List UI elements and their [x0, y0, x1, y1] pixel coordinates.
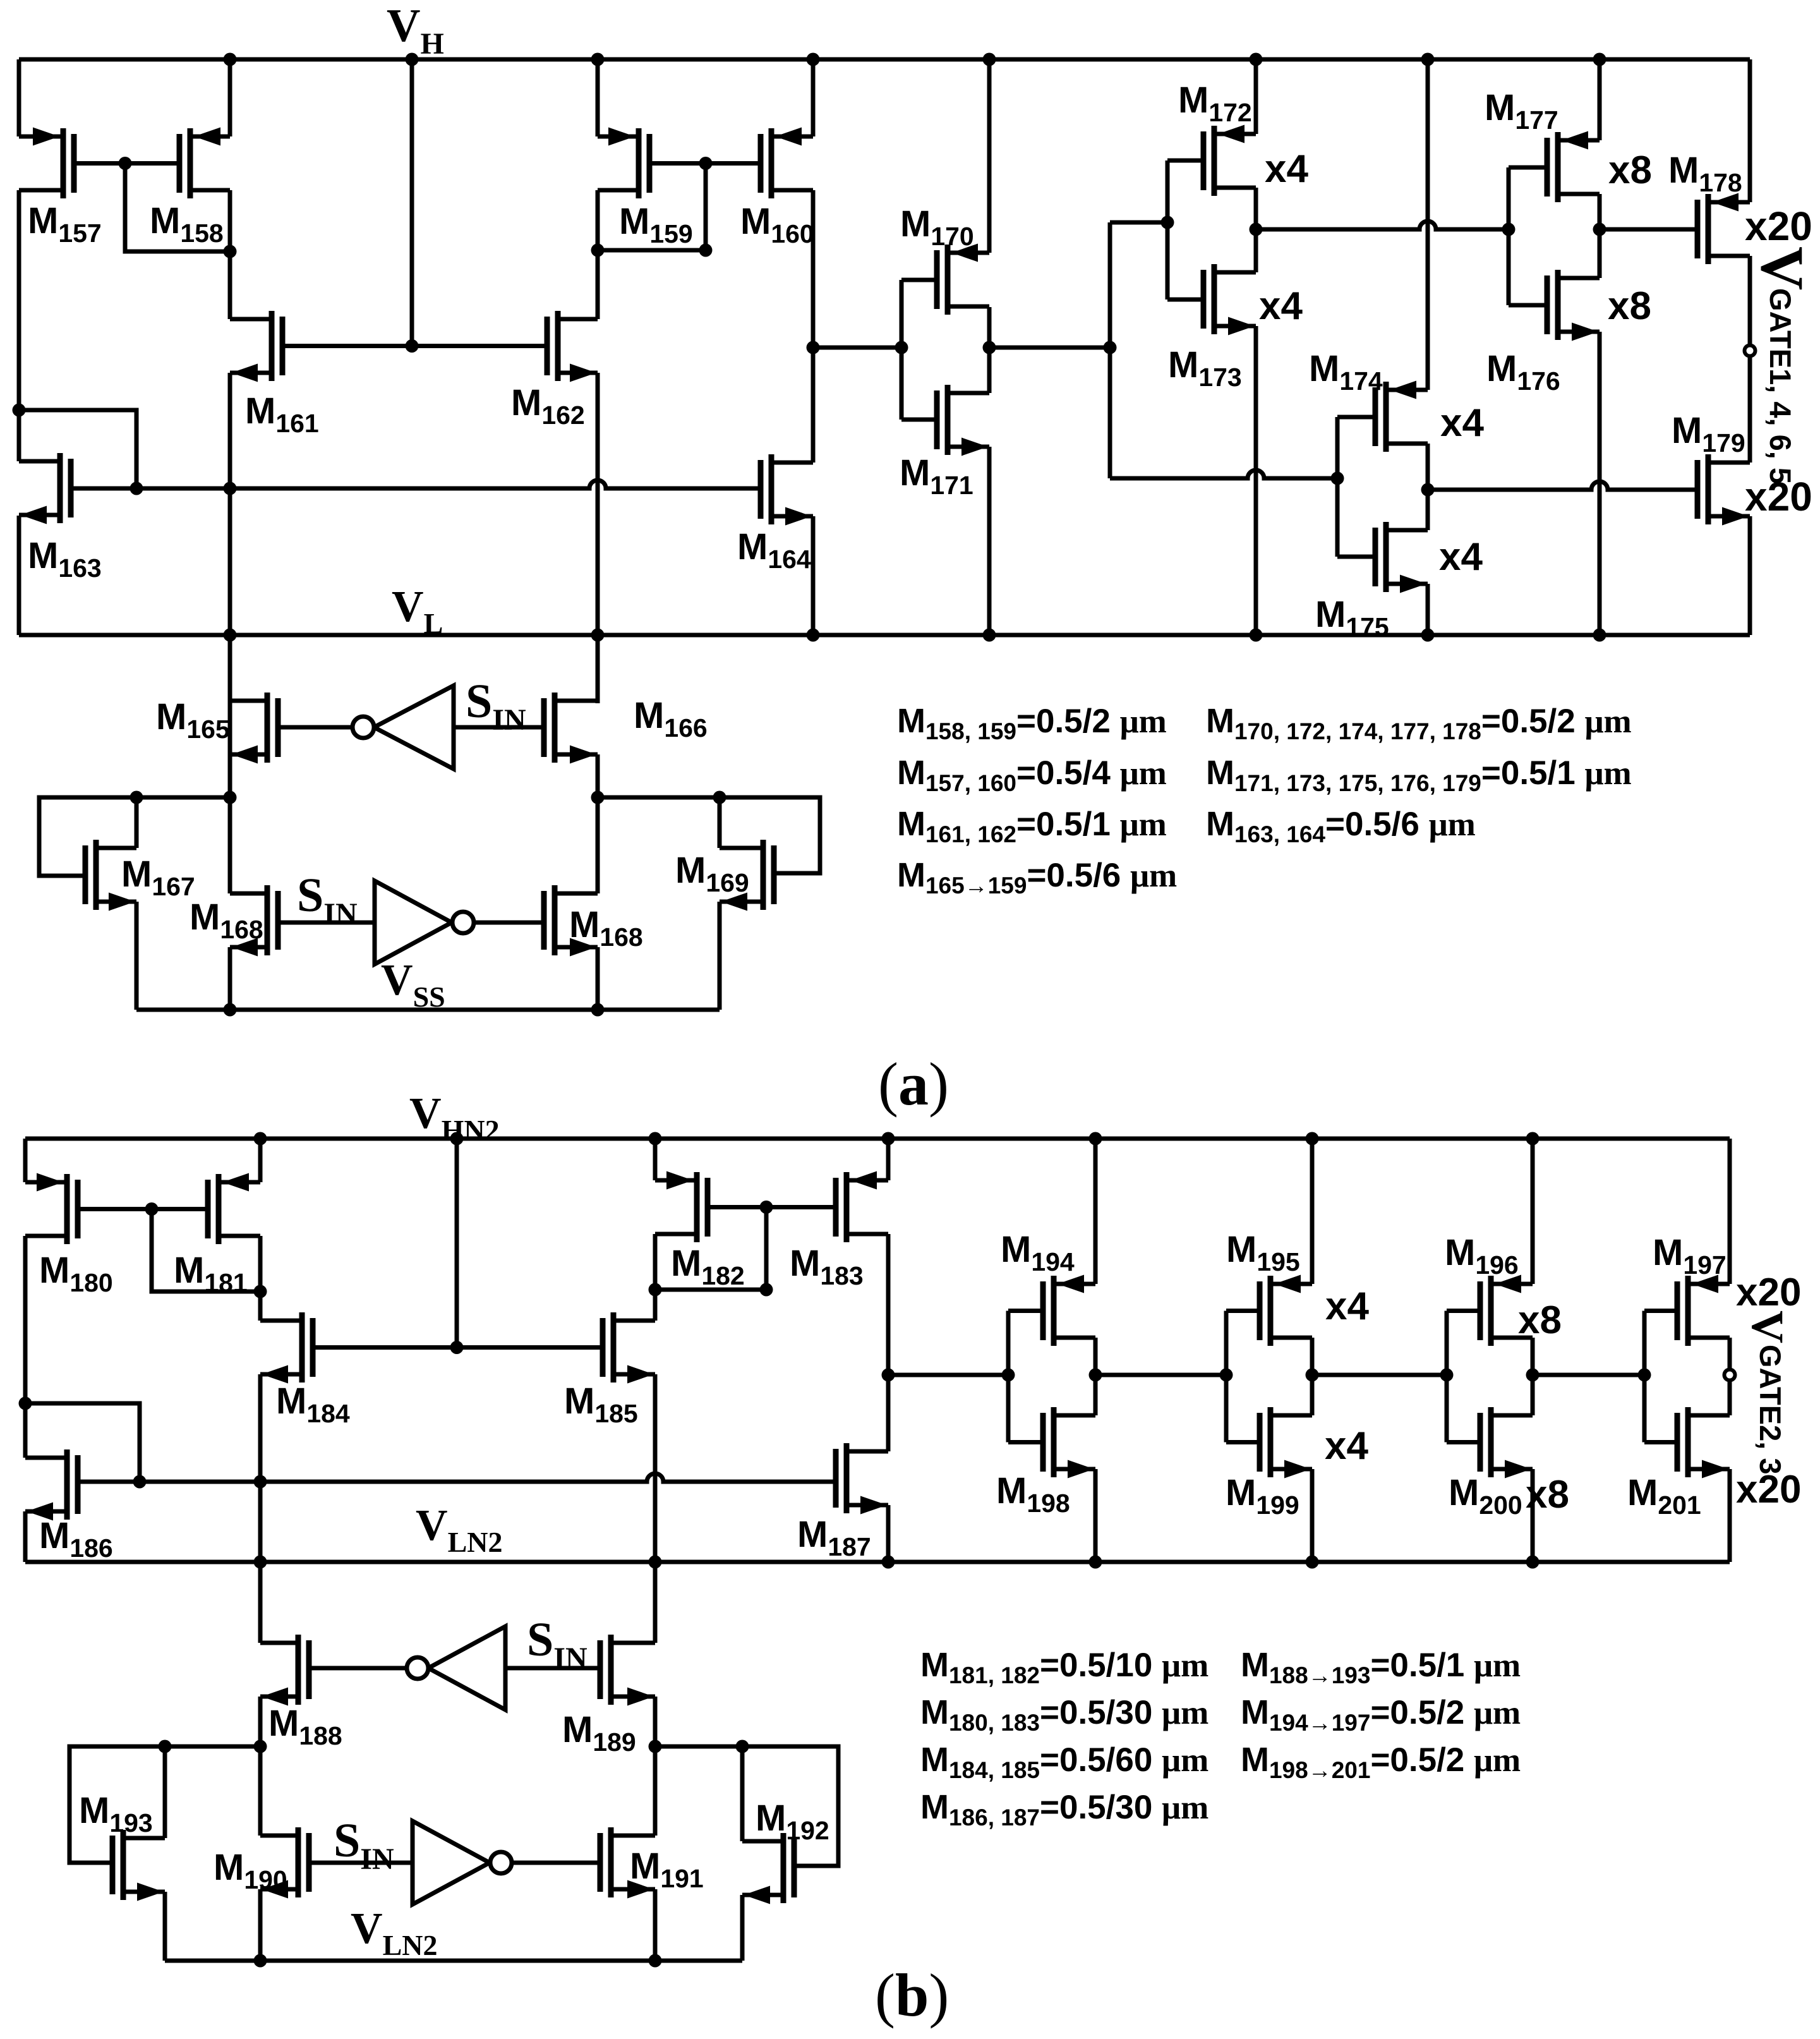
wire gate tie down: [655, 1207, 766, 1290]
node VL M173: [1250, 629, 1263, 642]
node gates of M180/M181: [145, 1202, 159, 1216]
wire gate-tie branch to M163 gate line: [19, 410, 136, 488]
wire gate tie down: [598, 164, 706, 251]
node M193 drain tie: [159, 1740, 172, 1753]
node VSS M168 left: [224, 1003, 237, 1017]
node gate line / VHN2 stem: [450, 1341, 464, 1354]
transistor M190: [260, 1827, 309, 1899]
port VGATE1,4,6,5 output: [1745, 346, 1756, 356]
node M157 drain / M163 gate tie: [13, 404, 26, 417]
wire M190 gate to inverter: [309, 1861, 413, 1865]
node VLN2 M199: [1306, 1556, 1319, 1569]
wire M201 source drop: [1728, 1469, 1732, 1562]
wire stage output riser: [1728, 1338, 1732, 1369]
wire M175 source drop: [1426, 584, 1430, 635]
node VLN2 M200: [1526, 1556, 1540, 1569]
svg-text:x4: x4: [1325, 1285, 1369, 1328]
wire M181 drain to M184 drain: [258, 1236, 263, 1321]
net VHN2 rail: [25, 1137, 1730, 1141]
wire M186/M187 long gate line (hop over M185 source): [78, 1473, 836, 1482]
node VL M164: [807, 629, 820, 642]
transistor M165: [230, 693, 278, 764]
wire node to M169 gate: [720, 797, 820, 873]
wire M190 drain riser: [258, 1746, 263, 1836]
wire M184/M185 gate line: [313, 1345, 603, 1350]
transistor M172: [1203, 125, 1256, 197]
svg-text:x4: x4: [1259, 284, 1303, 328]
wire M190 source drop: [258, 1889, 263, 1961]
net VSS rail: [136, 1008, 720, 1012]
transistor M185: [603, 1312, 655, 1384]
node M184 source / M186 gate line: [254, 1475, 267, 1489]
node VH M177: [1593, 53, 1606, 66]
transistor M200: [1480, 1407, 1533, 1479]
node VH stem: [406, 53, 419, 66]
wire M180-M181 gate link: [78, 1207, 208, 1211]
wire left node line: [136, 796, 230, 800]
transistor M196: [1480, 1275, 1533, 1346]
wire M187 source to VLN2: [886, 1505, 891, 1562]
wire M195/M199 gate riser: [1224, 1311, 1229, 1443]
transistor M180: [25, 1173, 78, 1245]
node b mirror right: [649, 1740, 662, 1753]
wire M161/M162 gate line: [282, 344, 547, 348]
transistor M182: [655, 1171, 708, 1243]
node M167 drain tie: [130, 791, 143, 804]
wire node to chain input: [888, 1373, 1008, 1377]
wire M159 source riser: [596, 59, 600, 136]
transistor M176: [1547, 270, 1600, 341]
wire inverter input from SIN: [505, 1666, 600, 1671]
transistor M179: [1697, 454, 1750, 526]
wire VH right corner to M178 source: [1748, 59, 1752, 202]
svg-text:x20: x20: [1736, 1271, 1801, 1314]
wire stage4 output riser: [1598, 194, 1602, 278]
node VLN2 M198: [1089, 1556, 1102, 1569]
wire M184 source down to VLN2 and M188: [258, 1374, 263, 1643]
wire M194 source riser: [1094, 1139, 1098, 1284]
transistor M168b: [544, 885, 598, 957]
inverter: [428, 1626, 505, 1710]
wire output line: [1533, 1373, 1644, 1377]
transistor M191: [600, 1827, 655, 1899]
transistor M188: [260, 1635, 309, 1706]
wire M167 source drop to VSS rail: [135, 902, 139, 1010]
wire M198 gate lead: [1008, 1440, 1043, 1444]
wire M160 drain down to M164: [811, 190, 816, 463]
transistor M189: [600, 1635, 655, 1706]
node M169 drain tie: [713, 791, 726, 804]
wire M194/M198 gate riser: [1006, 1311, 1011, 1443]
node VLN2b M190: [254, 1954, 267, 1968]
node VL M171: [983, 629, 996, 642]
wire M197 source riser: [1728, 1139, 1732, 1284]
wire M168 right source drop: [596, 947, 600, 1010]
wire M174/M175 gate riser: [1335, 417, 1340, 557]
wire M197/M201 gate riser: [1642, 1311, 1647, 1443]
node VL M175: [1421, 629, 1435, 642]
wire M177 source riser: [1598, 59, 1602, 140]
wire M200 gate lead: [1447, 1440, 1480, 1444]
wire M170/M171 gate riser: [900, 280, 904, 420]
node M192 drain tie: [736, 1740, 749, 1753]
wire inverter input from SIN: [454, 725, 544, 730]
inverter: [374, 686, 454, 769]
wire M186 source to VLN2: [23, 1511, 28, 1562]
transistor M198: [1043, 1407, 1095, 1479]
node stage3 input: [1331, 472, 1344, 485]
transistor M173: [1203, 264, 1256, 336]
wire M161 source down to VL and M165: [228, 373, 232, 769]
transistor M195: [1260, 1275, 1312, 1346]
wire right node line: [598, 796, 720, 800]
wire output line: [1095, 1373, 1226, 1377]
node gate tie corner: [760, 1283, 773, 1297]
wire stage4 output line to M178 gate: [1600, 227, 1697, 232]
wire M166 source drop to node: [596, 754, 600, 797]
node VHN2 stem: [450, 1132, 464, 1146]
port VGATE2,3 output: [1725, 1370, 1735, 1381]
wire M196 source riser: [1531, 1139, 1535, 1284]
wire right node line b: [655, 1745, 742, 1749]
wire M191 drain riser: [653, 1746, 658, 1836]
wire M174 source riser: [1426, 59, 1430, 390]
svg-text:x4: x4: [1265, 147, 1308, 191]
wire VH stem: [410, 59, 414, 346]
transistor M201: [1677, 1407, 1730, 1479]
transistor M162: [547, 311, 598, 382]
wire stage2 output riser: [1254, 188, 1258, 272]
wire port to M179 drain: [1748, 356, 1752, 463]
transistor M169: [720, 840, 774, 911]
transistor M177: [1547, 131, 1600, 203]
wire M177/M176 gate riser: [1507, 167, 1511, 305]
node VHN2 M196: [1526, 1132, 1540, 1146]
wire M173 source drop: [1254, 326, 1258, 635]
node VH M172: [1250, 53, 1263, 66]
wire feed top to stage2 gates: [1110, 221, 1167, 225]
node gates of M182/M183: [760, 1201, 773, 1214]
svg-text:(a): (a): [878, 1050, 949, 1118]
node VL M176: [1593, 629, 1606, 642]
node M180 drain / M186 gate tie: [19, 1397, 32, 1410]
wire M182-M183 gate link: [708, 1205, 836, 1209]
wire M168 right drain riser: [596, 797, 600, 893]
wire M179 source to VL right corner: [1748, 516, 1752, 635]
wire M157 drain down left edge: [17, 190, 21, 461]
wire M176 source drop: [1598, 332, 1602, 635]
wire M160 source riser: [811, 59, 816, 136]
node M163 gate tie: [130, 482, 143, 495]
node gates of M157/M158: [119, 157, 132, 170]
node VH-M160: [807, 53, 820, 66]
wire M182 source riser: [653, 1139, 658, 1180]
wire M173 gate lead: [1167, 298, 1203, 302]
wire VL to M165 drain: [228, 635, 232, 701]
wire M201 gate lead: [1644, 1440, 1677, 1444]
wire M194 gate lead: [1008, 1309, 1043, 1313]
transistor M181: [208, 1173, 260, 1245]
wire left node line b: [165, 1745, 260, 1749]
wire M177 gate lead: [1509, 166, 1547, 170]
wire M189 source drop to node: [653, 1697, 658, 1746]
wire M176 gate lead: [1509, 303, 1547, 308]
net VLN2 bottom rail: [165, 1959, 742, 1963]
svg-text:x4: x4: [1440, 401, 1484, 445]
wire M171 gate lead: [901, 418, 937, 422]
wire node to M167 gate: [39, 797, 136, 876]
wire M175 gate lead: [1337, 555, 1375, 559]
wire M180 drain down left edge: [23, 1236, 28, 1458]
node gates of M159/M160: [699, 157, 713, 170]
node VHN2 M194: [1089, 1132, 1102, 1146]
node stage4 output: [1593, 223, 1606, 236]
wire M157-M158 gate link: [74, 161, 179, 166]
wire M178 drain to output port: [1748, 256, 1752, 346]
wire M200 source drop: [1531, 1469, 1535, 1562]
wire M172 source riser: [1254, 59, 1258, 134]
inverter: [413, 1821, 490, 1904]
wire node to inverter chain input: [813, 346, 901, 350]
wire VLN2 to M188 drain: [258, 1562, 263, 1643]
wire M167 drain riser: [135, 797, 139, 848]
wire M174 gate lead: [1337, 415, 1375, 420]
wire M193 drain riser: [163, 1746, 167, 1838]
node M182 drain tie: [649, 1283, 662, 1297]
wire M199 gate lead: [1226, 1440, 1260, 1444]
node VH M174: [1421, 53, 1435, 66]
wire M183 drain down to M187: [886, 1234, 891, 1451]
wire M193 source drop to VLN2b rail: [163, 1892, 167, 1961]
transistor M186: [25, 1449, 78, 1521]
svg-text:GATE1, 4, 6, 5: GATE1, 4, 6, 5: [1764, 288, 1797, 484]
wire M164 source to VL: [811, 516, 816, 635]
wire feed bottom to stage3 gates (hop over M173 source): [1110, 470, 1337, 478]
transistor M192: [742, 1833, 794, 1904]
wire M192 source drop to VLN2b rail: [740, 1895, 745, 1961]
node VLN2 crossing right: [649, 1556, 662, 1569]
wire M197 gate lead: [1644, 1309, 1677, 1313]
node chain b input 2: [1220, 1369, 1233, 1382]
wire M169 source drop to VSS rail: [718, 902, 722, 1010]
node stage1 output: [983, 341, 996, 354]
wire M170 gate lead: [901, 278, 937, 282]
transistor M167: [85, 840, 136, 911]
svg-text:x4: x4: [1325, 1424, 1368, 1468]
wire M183 source riser: [886, 1139, 891, 1180]
transistor M178: [1697, 193, 1750, 265]
node VH-M158: [224, 53, 237, 66]
transistor M164: [761, 454, 813, 526]
transistor M184: [260, 1312, 313, 1384]
svg-text:V: V: [1749, 246, 1816, 290]
wire M158 drain to M161 drain: [228, 190, 232, 319]
node VHN2 M195: [1306, 1132, 1319, 1146]
transistor M168a: [230, 885, 278, 957]
node VH M170: [983, 53, 996, 66]
node chain b output 3: [1526, 1369, 1540, 1382]
node VHN2-M183: [882, 1132, 895, 1146]
wire gate tie down: [125, 164, 230, 252]
transistor M183: [836, 1171, 888, 1243]
svg-text:x4: x4: [1439, 535, 1483, 579]
wire stage2 output line to x8 gates (hop over M174 source riser): [1256, 221, 1509, 229]
node VH-M159: [591, 53, 605, 66]
transistor M193: [112, 1830, 165, 1901]
svg-text:(b): (b): [875, 1961, 949, 2029]
transistor M161: [230, 311, 282, 382]
wire M185 source down to VLN2 and M189: [653, 1374, 658, 1643]
transistor M171: [937, 385, 989, 456]
node M158 drain tie: [224, 245, 237, 258]
node M159 drain tie: [591, 244, 605, 257]
node M161 source / M163 gate line: [224, 482, 237, 495]
wire M188 source drop to node: [258, 1697, 263, 1746]
net VL rail: [19, 633, 1750, 638]
wire M188 gate to inverter bubble: [309, 1666, 407, 1671]
wire M165 gate to inverter bubble: [278, 725, 353, 730]
transistor M174: [1375, 381, 1428, 452]
wire M172/M173 gate riser: [1166, 160, 1170, 299]
wire left edge VHN2 to M180 source: [23, 1139, 28, 1182]
wire gate-tie branch to M186 gate line: [25, 1403, 140, 1482]
wire M170 source riser: [987, 59, 992, 253]
node VLN2 crossing left: [254, 1556, 267, 1569]
wire M168 left gate to inverter: [278, 921, 375, 925]
wire stage output riser: [1531, 1338, 1535, 1415]
wire M162 source down to VL and M166: [596, 373, 600, 703]
node stage3 output: [1421, 483, 1435, 497]
wire M196 gate lead: [1447, 1309, 1480, 1313]
wire stage1 output line: [989, 346, 1110, 350]
node chain b output 2: [1306, 1369, 1319, 1382]
node stage2 input: [1161, 216, 1174, 229]
node stage2 output: [1250, 223, 1263, 236]
wire stage output riser: [1094, 1338, 1098, 1415]
svg-text:x8: x8: [1518, 1298, 1562, 1342]
node gate tie corner: [699, 244, 713, 257]
node M160 drain / output to chain: [807, 341, 820, 354]
node VSS M168 right: [591, 1003, 605, 1017]
transistor M194: [1043, 1275, 1095, 1346]
node M181 drain tie: [254, 1285, 267, 1298]
wire M191 source drop: [653, 1889, 658, 1961]
wire node to M193 gate: [69, 1746, 165, 1863]
node M186 gate tie: [133, 1475, 147, 1489]
wire M159-M160 gate link: [649, 161, 761, 166]
svg-text:V: V: [1742, 1310, 1793, 1343]
transistor M199: [1260, 1407, 1312, 1479]
node VL crossing right: [591, 629, 605, 642]
wire M158 source riser: [228, 59, 232, 136]
wire M195 gate lead: [1226, 1309, 1260, 1313]
node M183 drain / output to chain: [882, 1369, 895, 1382]
wire stage1 output riser: [987, 307, 992, 393]
transistor M157: [19, 128, 74, 199]
transistor M163: [19, 453, 71, 524]
wire M163 source to VL: [17, 516, 21, 635]
wire chain feed vertical: [1108, 222, 1112, 478]
transistor M166: [544, 693, 598, 764]
node VLN2b M191: [649, 1954, 662, 1968]
svg-text:x8: x8: [1608, 148, 1652, 192]
wire gate tie down: [152, 1209, 260, 1292]
node VLN2 M187: [882, 1556, 895, 1569]
wire M168 left drain riser: [228, 797, 232, 893]
node VL crossing left: [224, 629, 237, 642]
transistor M197: [1677, 1275, 1730, 1346]
node VHN2-M181: [254, 1132, 267, 1146]
node chain b input 1: [1002, 1369, 1015, 1382]
transistor M159: [598, 128, 649, 199]
wire M195 source riser: [1310, 1139, 1315, 1284]
wire stage3 output line to M179 gate (hop over M176 source): [1428, 481, 1697, 490]
wire M169 drain riser: [718, 797, 722, 848]
net VH rail: [19, 57, 1750, 62]
wire M188 drain riser: [258, 1562, 263, 1643]
node chain b input 3: [1440, 1369, 1454, 1382]
wire M198 source drop: [1094, 1469, 1098, 1562]
transistor M175: [1375, 522, 1428, 593]
svg-text:GATE2, 3: GATE2, 3: [1754, 1345, 1787, 1474]
wire inverter output to M191 gate: [512, 1861, 600, 1865]
wire M172 gate lead: [1167, 159, 1203, 163]
node b mirror left: [254, 1740, 267, 1753]
wire inverter output to M168 right gate: [474, 921, 544, 925]
svg-text:x20: x20: [1745, 203, 1812, 249]
wire M159 drain to M162 drain: [596, 190, 600, 319]
node chain input 1: [895, 341, 908, 354]
transistor M158: [179, 128, 230, 199]
wire node to M192 gate: [742, 1746, 838, 1866]
wire output line: [1312, 1373, 1447, 1377]
wire M165 source drop to node: [228, 754, 232, 797]
node stage4 input: [1502, 223, 1516, 236]
wire M196/M200 gate riser: [1445, 1311, 1449, 1443]
transistor M187: [836, 1443, 888, 1515]
svg-text:x8: x8: [1608, 284, 1651, 328]
inverter: [375, 881, 452, 964]
wire M168 left source drop: [228, 947, 232, 1010]
node VHN2-M182: [649, 1132, 662, 1146]
node chain b output 1: [1089, 1369, 1102, 1382]
node left mirror top: [224, 791, 237, 804]
wire left edge VH to M157 source: [17, 59, 21, 136]
wire M182 drain to M185 drain: [653, 1234, 658, 1321]
transistor M170: [937, 244, 989, 315]
node right mirror top: [591, 791, 605, 804]
wire M199 source drop: [1310, 1469, 1315, 1562]
node gate line / VH stem: [406, 339, 419, 353]
wire stage3 output riser: [1426, 444, 1430, 530]
wire stage output riser: [1310, 1338, 1315, 1415]
wire VHN2 stem: [455, 1139, 459, 1348]
wire M171 source drop: [987, 447, 992, 635]
wire M181 source riser: [258, 1139, 263, 1182]
net VLN2 rail: [25, 1560, 1730, 1564]
transistor M160: [761, 128, 813, 199]
node chain b input 4: [1638, 1369, 1651, 1382]
wire M163/M164 long gate line (hop over M162 source): [71, 480, 761, 488]
node feed: [1104, 341, 1117, 354]
wire M192 drain riser: [740, 1746, 745, 1841]
